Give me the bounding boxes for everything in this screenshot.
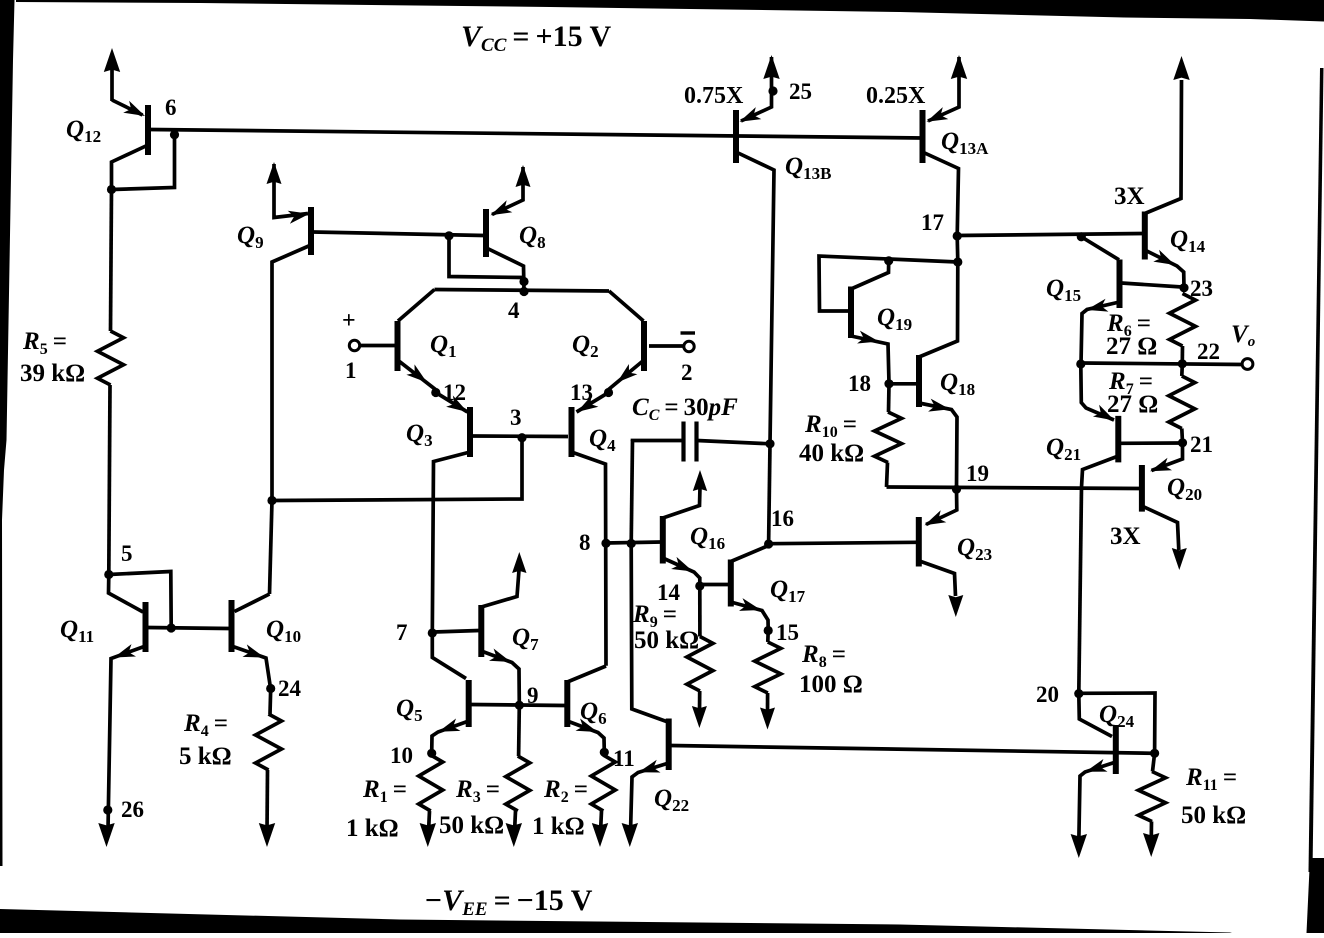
transistor Q17 collector lead [731,546,769,562]
node 22 label [1197,339,1220,364]
node 23 label [1190,276,1213,301]
label Q18 [940,369,975,399]
transistor Q9 emitter lead [274,164,308,218]
transistor Q3 base bar [467,407,473,457]
wire R6 to node22 [1180,346,1184,363]
junction dot Q11 base [167,623,176,632]
VCC supply label [461,20,612,56]
resistor R11 zigzag [1139,772,1166,822]
wire node16 to Q23 base [769,542,917,543]
svg-text:40 kΩ: 40 kΩ [799,440,864,467]
wire input2 to Q2 base [649,344,684,348]
svg-text:0.75X: 0.75X [684,83,744,109]
capacitor Cc right wire [697,441,770,444]
wire R8 tail [766,693,770,714]
svg-text:18: 18 [848,371,871,396]
node 15 label [776,620,799,645]
transistor Q1 base bar [395,321,401,371]
label Q13A [941,128,989,158]
wire node8 to Q16 base [606,542,661,543]
node 19 label [966,461,989,486]
svg-text:50 kΩ: 50 kΩ [439,812,504,839]
VCC arrow above Q9 [267,162,282,184]
VCC arrow above Q16 [693,470,707,491]
svg-text:3X: 3X [1110,523,1141,550]
transistor Q14 emitter arrowhead [1153,250,1175,265]
svg-text:20: 20 [1036,682,1059,707]
resistor R8 zigzag [755,642,781,693]
transistor Q16 collector lead [663,487,700,518]
input + terminal [342,308,360,351]
transistor Q20 emitter lead [1152,443,1183,471]
node 21 dot [1178,438,1187,447]
transistor Q1 collector lead [398,290,435,322]
transistor Q24 emitter lead [1079,762,1116,843]
svg-text:−VEE = −15 V: −VEE = −15 V [424,884,593,920]
junction dot Q12 collector [107,185,116,194]
svg-text:26: 26 [121,797,144,822]
label R7 value [1107,391,1158,418]
transistor Q4 base bar [569,407,575,457]
transistor Q14 collector lead [1145,80,1182,214]
transistor Q18 emitter lead [919,403,957,489]
wire node 22 rail [1081,363,1243,365]
label R2 value [532,813,585,840]
svg-text:7: 7 [396,620,408,645]
node 10 dot [427,749,436,758]
transistor Q13A base bar [920,110,926,163]
node 10 label [390,743,413,768]
transistor Q15 emitter arrowhead [1087,299,1109,312]
transistor Q20 base bar [1139,465,1145,512]
junction dot Q8 base wire [444,231,453,240]
transistor Q4 collector lead [572,452,607,666]
transistor Q15 collector lead [1081,237,1119,260]
wire Q9 collector to Q10 [270,501,273,595]
label R1 [362,776,407,806]
wire node15 to R8 [766,631,770,643]
label Q23 [957,534,992,564]
wire Q18 base [891,382,917,386]
resistor R7 zigzag [1169,376,1195,429]
wire node17 to Q14 base [957,234,1143,236]
VEE arrow below R4 [259,823,275,847]
wire Q8 base-collector tie [449,236,524,278]
transistor Q5 emitter lead [432,721,469,753]
wire node18 to R10 [887,384,891,412]
node 4 label [508,298,520,323]
transistor Q12 collector lead [112,145,149,190]
transistor Q22 base bar [666,719,672,771]
transistor Q11 collector lead [109,575,144,613]
resistor R10 zigzag [875,412,902,463]
svg-text:6: 6 [165,95,177,120]
svg-text:39 kΩ: 39 kΩ [20,360,85,387]
transistor Q13B emitter lead [741,57,772,121]
label Q3 [406,420,433,450]
transistor Q17 base bar [728,560,734,607]
transistor Q9 emitter arrowhead [288,211,310,224]
transistor Q17 emitter lead [731,602,768,629]
node 6 label [165,95,177,120]
svg-text:5 kΩ: 5 kΩ [179,743,232,770]
label 0.25X [866,83,926,109]
label R9 value [634,627,699,654]
transistor Q23 base bar [916,517,922,567]
transistor Q16 emitter lead [663,558,700,585]
transistor Q16 emitter arrowhead [671,557,693,572]
resistor R5 zigzag [98,331,124,385]
svg-text:5: 5 [121,541,133,566]
VCC arrow above Q13A [951,55,967,79]
junction dot node 4 [519,287,528,296]
wire R3 tail [515,811,516,832]
svg-text:11: 11 [613,746,635,771]
transistor Q2 collector lead [609,291,644,321]
VCC arrow above Q12 [104,48,120,72]
transistor Q24 emitter arrowhead [1086,759,1108,772]
svg-text:50 kΩ: 50 kΩ [1181,802,1246,829]
node 7 label [396,620,408,645]
transistor Q3 emitter arrowhead [446,396,467,413]
label Q17 [770,576,806,606]
junction dot node 8 [601,539,610,548]
junction dot Q15 collector [1077,232,1086,241]
transistor Q7 collector lead [481,570,519,607]
VEE arrow below Q23 [948,595,963,617]
svg-text:1 kΩ: 1 kΩ [532,813,585,840]
label R7 [1108,368,1153,398]
transistor Q15 base bar [1117,260,1123,309]
transistor Q11 emitter lead [108,646,146,830]
VEE arrow below R3 [506,823,522,847]
svg-text:17: 17 [921,210,944,235]
wire node6 to Q12 collector [112,135,175,190]
node 6 junction dot [170,130,179,139]
svg-text:24: 24 [278,676,302,701]
node 20 label [1036,682,1059,707]
label Q11 [60,616,94,646]
node 13 label [570,380,593,405]
node 8 label [579,530,591,555]
svg-text:4: 4 [508,298,520,323]
svg-text:0.25X: 0.25X [866,83,926,109]
transistor Q5 base bar [466,680,472,727]
wire Q9-Q8 base [313,232,484,236]
transistor Q22 emitter arrowhead [639,760,661,773]
scan border left edge [0,0,15,866]
label Q14 [1170,226,1206,256]
transistor Q14 emitter lead [1145,250,1184,288]
transistor Q19 base bar [848,287,854,339]
label Q12 [66,116,101,146]
transistor Q4 emitter lead [577,393,609,413]
resistor R3 zigzag [506,756,530,811]
label R10 [804,411,857,441]
capacitor Cc right plate [694,422,698,462]
VEE arrow below R1 [420,823,436,847]
transistor Q10 collector lead [235,594,270,612]
svg-text:2: 2 [681,360,693,385]
transistor Q12 emitter arrowhead [123,101,145,116]
label Q7 [512,624,539,654]
transistor Q8 base bar [483,209,489,257]
wire node9 to R3 [517,706,521,756]
wire Q19 collector-base loop [819,256,958,311]
transistor Q16 base bar [660,516,666,564]
label R3 [455,776,500,806]
wire R2 tail [601,811,602,832]
label 0.75X [684,83,744,109]
transistor Q11 base bar [143,602,149,652]
transistor Q6 emitter arrowhead [576,719,598,733]
label R1 value [346,815,399,842]
transistor Q1 emitter arrowhead [406,364,427,382]
wire Q21 base to node21 [1121,441,1182,445]
transistor Q1 emitter lead [398,360,436,390]
transistor Q18 base bar [916,355,922,407]
label Q9 [237,222,264,252]
label R10 value [799,440,864,467]
label R6 [1106,310,1151,340]
transistor Q21 emitter arrowhead [1093,405,1115,421]
capacitor Cc left wire [631,440,683,544]
VEE arrow below R2 [592,823,608,847]
svg-text:22: 22 [1197,339,1220,364]
transistor Q3 emitter lead [436,393,468,413]
wire R5 to node 5 [109,385,110,575]
node 9 dot [515,701,524,710]
transistor Q2 base bar [641,321,647,371]
node 25 dot [768,86,777,95]
transistor Q23 emitter arrowhead [925,510,947,525]
transistor Q9 collector lead [272,245,311,501]
node 13 dot [604,388,613,397]
transistor Q10 base bar [229,600,235,652]
transistor Q13B emitter arrowhead [740,107,762,122]
wire node24 to R4 [268,689,272,715]
transistor Q3 collector lead [432,452,470,633]
svg-text:27 Ω: 27 Ω [1107,391,1158,418]
transistor Q11 emitter arrowhead [114,644,136,657]
node 17 label [921,210,944,235]
label 3X upper [1114,183,1145,210]
label Q8 [519,222,546,252]
label Q4 [589,425,616,455]
transistor Q19 collector lead [851,261,889,289]
svg-text:3X: 3X [1114,183,1145,210]
svg-text:9: 9 [527,683,539,708]
node 26 dot [103,805,112,814]
wire R7 to node21 [1180,429,1184,443]
transistor Q6 collector lead [567,666,606,682]
node 12 dot [431,388,440,397]
transistor Q23 collector lead [920,561,956,596]
transistor Q4 emitter arrowhead [577,396,598,413]
node 17 dot [953,231,962,240]
wire node5 elbow to Q11 base [109,572,171,628]
transistor Q5 emitter arrowhead [439,719,461,732]
VEE arrow below R9 [692,706,707,728]
wire node6 horizontal bus to Q13 bases [150,130,922,139]
transistor Q19 emitter lead [851,336,889,384]
wire Q3-Q4 base [472,434,568,438]
svg-text:CC = 30pF: CC = 30pF [632,394,738,424]
transistor Q13A emitter lead [928,57,959,121]
transistor Q7 base bar [478,605,484,657]
VCC arrow above Q7 [512,552,526,573]
node 3 dot [517,433,526,442]
label Q22 [654,785,689,815]
node 20 dot [1074,689,1083,698]
wire Q13B collector to node 16 [769,444,770,544]
label Q16 [690,523,725,553]
label Q1 [430,331,457,361]
node 2 label [681,360,693,385]
transistor Q24 base bar [1113,725,1119,774]
label R11 [1185,764,1237,794]
scan border right edge [1307,68,1324,933]
wire Q22 to Q24 base [671,746,1155,754]
VEE supply label [424,884,593,920]
resistor R9 zigzag [687,637,713,692]
wire Q5-Q6 base [471,705,566,706]
wire R9 tail [698,691,702,713]
label Cc value [632,394,738,424]
label 3X lower [1110,523,1141,550]
transistor Q13A collector lead [923,152,959,236]
transistor Q8 collector lead [487,248,525,292]
label Q10 [266,616,301,646]
wire Q9 collector to Q3/Q4 base node [272,438,522,501]
label R5 value [20,360,85,387]
transistor Q20 collector lead [1142,506,1179,550]
node 19 dot [952,485,961,494]
transistor Q14 base bar [1142,212,1148,260]
transistor Q10 emitter arrowhead [243,644,265,657]
junction dot Q19 collector [884,256,893,265]
resistor R1 zigzag [419,755,443,811]
transistor Q7 emitter arrowhead [489,649,511,663]
label Q20 [1167,474,1202,504]
transistor Q21 collector lead [1082,456,1119,487]
node 24 label [278,676,302,701]
svg-text:19: 19 [966,461,989,486]
node 5 label [121,541,133,566]
node 18 dot [884,379,893,388]
VEE arrow below Q20 [1172,548,1187,570]
wire node14 to R9 [698,586,702,637]
transistor Q18 collector lead [919,262,958,357]
transistor Q8 emitter lead [492,167,523,215]
label R4 value [179,743,232,770]
node 11 label [613,746,635,771]
label Vo [1231,321,1255,350]
transistor Q19 emitter arrowhead [857,331,879,344]
node 25 label [789,79,812,104]
VCC arrow above Q8 [516,165,531,187]
transistor Q24 collector lead [1079,694,1112,737]
transistor Q18 emitter arrowhead [928,399,950,412]
transistor Q21 base bar [1115,416,1121,463]
wire node19 to node 20 [1079,487,1082,693]
transistor Q22 emitter lead [631,763,669,832]
transistor Q2 emitter arrowhead [617,364,637,383]
svg-text:100 Ω: 100 Ω [799,671,863,698]
label Q21 [1046,434,1081,464]
transistor Q9 base bar [308,207,314,255]
transistor Q13B base bar [733,110,739,163]
transistor Q13B collector lead [736,152,774,444]
scan border bottom edge [0,909,1232,933]
junction dot Cc-Q22 riser [627,539,636,548]
label Q6 [580,698,607,728]
svg-text:+: + [342,308,356,334]
label R3 value [439,812,504,839]
label R2 [543,776,588,806]
VCC arrow above Q14 [1173,56,1189,80]
svg-text:15: 15 [776,620,799,645]
node 15 dot [764,626,773,635]
transistor Q6 emitter lead [567,721,604,752]
scan border top edge [16,0,1324,22]
wire Q11-Q10 base [147,628,229,629]
node 7 dot [428,628,437,637]
label Q24 [1099,701,1135,731]
label Q5 [396,695,423,725]
input - terminal [681,333,696,352]
junction dot Cc right [765,439,774,448]
wire R11 tail [1149,822,1153,844]
label Q13B [785,153,831,183]
VEE arrow below Q24 [1071,834,1087,858]
wire node20 loop top [1079,693,1155,753]
VEE arrow below Q11 [98,823,114,847]
node 16 dot [764,539,773,548]
node 16 label [771,506,794,531]
wire Q12 collector to R5 [111,190,112,332]
transistor Q13A emitter arrowhead [927,107,949,122]
transistor Q20 emitter arrowhead [1150,458,1172,471]
node 11 dot [600,748,609,757]
wire Q17 base [702,583,729,587]
node 24 dot [266,684,275,693]
wire Q7 base [434,631,479,633]
svg-text:27 Ω: 27 Ω [1106,333,1157,360]
wire R1 tail [429,811,430,832]
node 5 dot [104,570,113,579]
label R5 [22,328,67,358]
svg-text:8: 8 [579,530,591,555]
capacitor Cc left plate [681,422,685,462]
wire Q15 base to node23 [1122,283,1183,287]
svg-text:1 kΩ: 1 kΩ [346,815,399,842]
node 18 label [848,371,871,396]
transistor Q12 base bar [145,105,151,155]
svg-text:21: 21 [1190,432,1213,457]
svg-text:3: 3 [510,405,522,430]
transistor Q17 emitter arrowhead [739,598,761,611]
transistor Q6 base bar [564,680,570,727]
VEE arrow below R8 [760,708,775,730]
svg-text:25: 25 [789,79,812,104]
svg-text:50 kΩ: 50 kΩ [634,627,699,654]
transistor Q12 emitter lead [112,60,143,115]
junction dot Q19 bus right [953,257,962,266]
label R8 [801,641,846,671]
node 22 dot [1178,359,1187,368]
transistor Q5 collector lead [432,633,466,679]
